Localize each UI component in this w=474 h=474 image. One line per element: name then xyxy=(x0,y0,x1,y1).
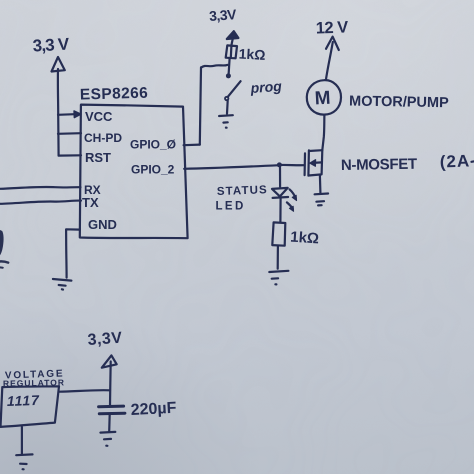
ground (R2) xyxy=(269,271,288,285)
svg-text:GPIO_Ø: GPIO_Ø xyxy=(130,138,176,152)
label REGULATOR xyxy=(3,377,65,388)
ground (MOSFET source) xyxy=(315,194,329,206)
pin GPIO_2 xyxy=(131,163,175,177)
ground (C1) xyxy=(100,432,115,446)
power arrow 3.3V top-left xyxy=(52,57,65,72)
photo artifact dash left edge xyxy=(0,261,8,262)
motor M letter xyxy=(314,88,331,110)
label R2 1kOhm xyxy=(290,229,320,248)
label clipped stroke right edge xyxy=(472,160,474,163)
wire TX xyxy=(0,201,81,204)
pin RST xyxy=(85,150,111,165)
node 12V label xyxy=(316,18,349,37)
svg-text:220µF: 220µF xyxy=(130,400,177,419)
power arrow 3.3V bottom xyxy=(102,355,117,367)
svg-text:GND: GND xyxy=(88,217,117,232)
photo artifact dark mark left edge xyxy=(0,230,4,257)
switch S1 contact xyxy=(225,97,228,100)
svg-text:3,3V: 3,3V xyxy=(209,6,238,24)
wire GPIO_2 to junction xyxy=(184,165,279,169)
wire motor to mosfet drain xyxy=(322,115,324,150)
wire arrow to cap xyxy=(109,362,112,407)
wire C1 to ground xyxy=(108,414,111,431)
svg-text:TX: TX xyxy=(82,195,99,210)
wire source to ground xyxy=(319,175,322,192)
wire LED to R2 xyxy=(279,199,281,222)
pin GND xyxy=(88,217,117,232)
resistor R1 1k body xyxy=(226,45,237,58)
svg-text:RST: RST xyxy=(85,150,111,165)
node 3.3V label top-middle xyxy=(209,6,238,24)
label N-MOSFET xyxy=(341,156,417,174)
label VOLTAGE xyxy=(5,368,65,381)
node junction J2 xyxy=(277,162,282,167)
pin TX xyxy=(82,195,99,210)
svg-text:1117: 1117 xyxy=(7,392,41,409)
transistor Q1 gate bar xyxy=(304,153,307,175)
svg-text:VCC: VCC xyxy=(85,109,113,124)
node 3.3V label bottom xyxy=(87,330,123,349)
svg-text:STATUS: STATUS xyxy=(217,184,268,198)
pin CH_PD xyxy=(84,131,122,145)
op module ESP8266 box xyxy=(80,105,188,239)
pin GPIO_0 xyxy=(130,138,176,152)
transistor Q1 N-MOSFET body xyxy=(308,150,322,176)
power arrow 3.3V top-middle xyxy=(227,31,239,39)
led D1 cathode bar xyxy=(273,196,289,199)
svg-text:M: M xyxy=(314,88,331,110)
svg-text:CH-PD: CH-PD xyxy=(84,131,122,145)
wire GPIO_0 stub xyxy=(184,144,200,147)
photo artifact dot left edge xyxy=(0,266,3,268)
label prog xyxy=(249,78,283,96)
label 220uF xyxy=(130,400,177,419)
regulator U2 1117 box xyxy=(1,386,60,427)
wire CH_PD stub xyxy=(58,132,81,135)
wire RST stub xyxy=(59,154,81,157)
label LED xyxy=(216,201,246,213)
wire VCC stub xyxy=(58,113,75,116)
wire switch to ground xyxy=(226,101,229,114)
svg-text:1kΩ: 1kΩ xyxy=(238,46,266,63)
label (2A xyxy=(439,151,470,171)
pin VCC xyxy=(85,109,113,124)
led D1 anode lead xyxy=(279,168,281,187)
wire regulator GND lead xyxy=(21,427,23,454)
ground (ESP GND) xyxy=(53,279,72,290)
wire 12V to motor xyxy=(326,42,333,79)
transistor Q1 body arrow xyxy=(313,161,322,164)
label 1117 xyxy=(7,392,41,409)
wire GPIO_0 to prog: horizontal top xyxy=(201,65,227,68)
svg-text:N-MOSFET: N-MOSFET xyxy=(341,156,417,174)
svg-text:MOTOR/PUMP: MOTOR/PUMP xyxy=(349,94,449,112)
svg-text:3,3 V: 3,3 V xyxy=(32,35,70,56)
pin RX xyxy=(84,183,101,197)
svg-text:3,3V: 3,3V xyxy=(87,330,123,349)
svg-text:prog: prog xyxy=(249,78,283,96)
label STATUS xyxy=(217,184,268,198)
capacitor C1 top plate xyxy=(99,405,124,409)
wire R2 to ground xyxy=(277,246,279,269)
ground (regulator) xyxy=(16,454,32,469)
led light arrow 1 xyxy=(290,189,296,198)
led light arrow 2 xyxy=(287,202,293,209)
node 3.3V label top-left xyxy=(32,35,70,56)
svg-text:12 V: 12 V xyxy=(316,18,349,37)
label R1 1kOhm xyxy=(238,46,266,63)
svg-text:(2A: (2A xyxy=(439,151,470,171)
resistor R2 1k body xyxy=(272,222,285,245)
wire gate lead xyxy=(279,164,304,167)
wire GND step xyxy=(66,229,80,277)
wire R1 bottom lead xyxy=(229,58,230,74)
wire regulator output xyxy=(59,390,110,392)
switch S1 lever xyxy=(228,81,241,96)
wire GPIO_0 vertical xyxy=(200,67,201,144)
svg-text:GPIO_2: GPIO_2 xyxy=(131,163,175,177)
capacitor C1 bottom plate xyxy=(99,412,125,416)
node junction J1 xyxy=(226,73,231,78)
ground (switch) xyxy=(219,115,233,128)
svg-text:LED: LED xyxy=(216,201,246,213)
motor M1 circle xyxy=(307,80,341,114)
label MOTOR/PUMP xyxy=(349,94,449,112)
svg-text:ESP8266: ESP8266 xyxy=(80,85,149,104)
label ESP8266 xyxy=(80,85,149,104)
wire RX xyxy=(0,187,81,189)
svg-text:1kΩ: 1kΩ xyxy=(290,229,320,248)
wire 3.3V rail down to pins xyxy=(57,69,60,156)
led D1 triangle xyxy=(272,188,288,197)
power arrow 12V xyxy=(326,37,339,50)
